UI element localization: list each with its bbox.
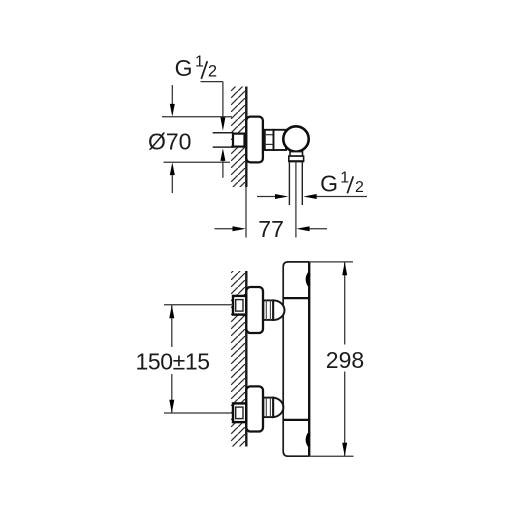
lower escutcheon (front view) xyxy=(246,386,263,431)
lower inlet dome xyxy=(273,398,283,418)
clip on top cap xyxy=(307,273,309,285)
body bottom cap line xyxy=(283,419,309,421)
upper coupling nut (ribbed) xyxy=(263,300,273,320)
svg-text:2: 2 xyxy=(355,179,364,196)
upper escutcheon (front view) xyxy=(246,287,263,333)
dimension Ø70 lower arrow xyxy=(170,162,175,175)
wall face extension line down to 77 dimension xyxy=(245,187,247,238)
clip on bottom cap xyxy=(307,434,309,446)
dimension 150±15 extension lines xyxy=(164,304,233,306)
dimension G1/2 (top) down arrow xyxy=(220,117,225,131)
union nipple in wall xyxy=(233,134,245,147)
dimension Ø70 extension lines xyxy=(162,116,232,118)
wall hatching (top view) xyxy=(231,87,246,188)
svg-text:2: 2 xyxy=(208,62,217,80)
upper inlet dome xyxy=(273,300,284,320)
svg-text:G: G xyxy=(175,55,193,81)
svg-text:77: 77 xyxy=(258,216,284,242)
lower coupling nut (ribbed) xyxy=(263,398,273,418)
wall face line (top view) xyxy=(245,87,247,188)
svg-text:298: 298 xyxy=(326,347,364,373)
dimension 150±15 arrows xyxy=(169,305,174,318)
dimension G1/2 (top) up arrow xyxy=(220,148,225,161)
supply pipe behind wall xyxy=(213,132,234,134)
coupling nut (top view) xyxy=(265,130,274,150)
valve body (top view) xyxy=(274,130,287,150)
lower hex union nut xyxy=(233,403,246,422)
svg-text:Ø70: Ø70 xyxy=(148,128,191,154)
dimension 298 arrows xyxy=(342,262,347,275)
wall hatching (front view) xyxy=(231,271,246,447)
svg-text:G: G xyxy=(320,171,338,197)
outlet pipe (G 1/2 thread) xyxy=(288,161,290,205)
svg-text:1: 1 xyxy=(340,169,349,186)
upper hex union nut xyxy=(233,296,246,315)
control knob circle xyxy=(283,126,308,151)
wall face line (front view) xyxy=(245,271,247,447)
dimension 298 extension lines xyxy=(309,261,353,263)
body top cap line xyxy=(283,297,309,299)
svg-text:1: 1 xyxy=(195,54,204,71)
dimension G1/2 (top) leader xyxy=(201,81,223,83)
escutcheon (top view) xyxy=(246,117,263,163)
body right edge xyxy=(308,262,310,456)
dimension G1/2 (outlet) arrows xyxy=(257,196,275,198)
dimension Ø70 upper arrow xyxy=(171,85,173,105)
svg-text:150±15: 150±15 xyxy=(136,348,210,374)
dimension 150±15 line xyxy=(171,305,173,347)
outlet collar under knob xyxy=(290,152,303,157)
dimension 77 arrows xyxy=(215,228,234,230)
thermostat body xyxy=(283,262,309,456)
dimension 298 line xyxy=(344,262,346,345)
outlet pipe centerline extension to 77 dimension xyxy=(295,161,297,237)
